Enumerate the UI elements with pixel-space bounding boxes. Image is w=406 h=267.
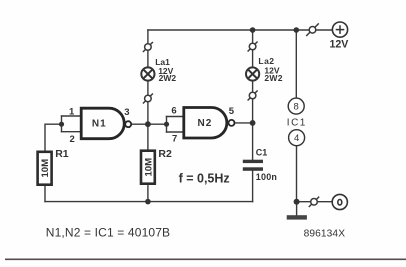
N2 output bubble xyxy=(229,120,235,126)
node junction N2 input tie xyxy=(164,122,169,127)
node junction R2 on bottom rail xyxy=(145,199,151,205)
resistor R2 xyxy=(141,151,155,184)
bottom rule line xyxy=(5,258,406,260)
resistor R1 xyxy=(38,152,52,185)
IC1 pin 4 circle xyxy=(289,130,305,146)
wire N1 output to node A xyxy=(131,123,148,125)
wire lamp La1 branch vertical (rail to node A and R2 top) xyxy=(147,30,149,151)
svg-text:4: 4 xyxy=(294,133,299,144)
capacitor C1 xyxy=(243,160,263,171)
NAND gate N2 xyxy=(184,108,227,139)
svg-text:896134X: 896134X xyxy=(304,228,346,239)
svg-text:La2: La2 xyxy=(258,56,274,66)
svg-text:7: 7 xyxy=(172,134,177,145)
svg-text:2W2: 2W2 xyxy=(159,73,177,83)
wire top supply rail xyxy=(148,29,333,31)
wire IC1 pin4 circle to ground junction xyxy=(296,146,298,202)
svg-text:100n: 100n xyxy=(256,172,277,182)
wire R2 bottom lead xyxy=(147,186,149,202)
wire R1 bottom lead xyxy=(44,186,46,202)
wire N1 pin1 xyxy=(62,115,82,117)
lamp La2 xyxy=(246,67,259,80)
wire lamp La2 branch vertical (rail to node B and C1 top) xyxy=(252,30,254,160)
wire bottom 0V rail xyxy=(45,201,253,203)
node junction R1 to N1 inputs xyxy=(59,122,64,127)
svg-text:f = 0,5Hz: f = 0,5Hz xyxy=(179,171,230,185)
terminal slash above La1 xyxy=(143,42,153,52)
wire ground junction to 0 terminal xyxy=(297,201,333,203)
svg-text:N2: N2 xyxy=(198,118,213,129)
wire ground stub xyxy=(296,202,298,216)
wire R1 top lead up and to N1 inputs xyxy=(45,124,62,150)
ground xyxy=(287,215,307,219)
wire node A to N2 input tie xyxy=(148,123,167,125)
svg-text:C1: C1 xyxy=(256,148,268,158)
svg-text:2W2: 2W2 xyxy=(264,73,282,83)
terminal slash above La2 xyxy=(248,42,258,52)
terminal slash +12V xyxy=(306,23,319,36)
svg-text:N1,N2 = IC1 = 40107B: N1,N2 = IC1 = 40107B xyxy=(46,225,170,239)
svg-text:2: 2 xyxy=(70,134,75,145)
terminal 0V circle xyxy=(332,194,347,209)
wire N2 output to node B xyxy=(235,122,253,124)
terminal slash 0V xyxy=(309,197,319,207)
svg-text:3: 3 xyxy=(124,107,129,118)
node junction IC1 supply on top rail xyxy=(294,27,300,33)
svg-text:6: 6 xyxy=(171,106,176,117)
lamp La1 xyxy=(141,67,154,80)
svg-text:10M: 10M xyxy=(40,159,51,178)
svg-text:IC1: IC1 xyxy=(287,117,307,128)
terminal slash below La1 xyxy=(143,94,153,104)
wire N1 input tie xyxy=(61,116,63,132)
terminal +12V circle xyxy=(332,22,347,37)
svg-text:10M: 10M xyxy=(143,158,154,177)
svg-text:8: 8 xyxy=(294,102,299,113)
IC1 pin 8 circle xyxy=(288,98,304,114)
wire N2 pin6 xyxy=(167,116,184,118)
svg-text:R2: R2 xyxy=(158,148,172,160)
node A (N1 out / La1 / R2 / N2 in) xyxy=(145,121,151,127)
svg-text:N1: N1 xyxy=(92,119,107,130)
wire IC1 supply drop (rail to pin8 circle) xyxy=(295,30,297,98)
N1 output bubble xyxy=(125,121,131,127)
NAND gate N1 xyxy=(81,108,124,139)
svg-text:5: 5 xyxy=(229,106,235,117)
node B (N2 out / La2 / C1) xyxy=(250,120,256,126)
wire C1 bottom to rail corner xyxy=(252,171,254,202)
node ground junction xyxy=(294,199,300,205)
terminal slash below La2 xyxy=(248,91,258,101)
svg-text:12V: 12V xyxy=(330,38,349,50)
wire N2 input tie xyxy=(166,117,168,133)
node junction La2 branch on top rail xyxy=(250,27,256,33)
wire N2 pin7 xyxy=(167,131,184,133)
svg-text:R1: R1 xyxy=(55,148,69,160)
svg-text:1: 1 xyxy=(69,106,75,117)
wire N1 pin2 xyxy=(62,131,82,133)
